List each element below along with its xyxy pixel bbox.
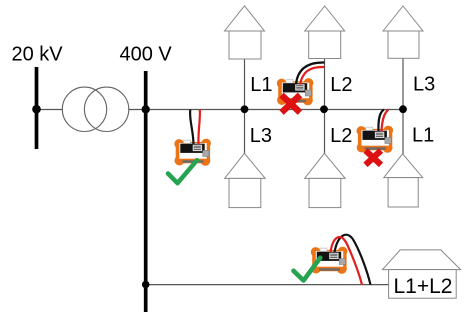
svg-text:400 V: 400 V — [120, 44, 173, 66]
svg-text:L2: L2 — [330, 74, 352, 96]
wire meter M1 red lead — [198, 110, 199, 145]
house E — [305, 153, 346, 207]
svg-text:L1: L1 — [250, 74, 272, 96]
transformer T1 — [62, 87, 128, 131]
wire meter M2 red lead — [300, 67, 325, 85]
cross mark M3 — [366, 151, 382, 165]
house A — [225, 6, 265, 59]
house B — [305, 6, 345, 59]
check mark M1 — [168, 160, 197, 183]
wire feeder bottom — [146, 284, 389, 286]
wire MV to transformer — [37, 109, 64, 111]
node LV bus — [142, 105, 150, 113]
cross mark M2 — [282, 95, 301, 113]
node feeder — [142, 281, 150, 289]
check mark M4 — [294, 258, 321, 281]
node service C — [399, 105, 407, 113]
svg-text:20 kV: 20 kV — [12, 44, 64, 66]
house F — [384, 154, 423, 207]
wire meter M4 red lead — [331, 237, 363, 285]
meter M2 — [277, 78, 314, 105]
svg-text:L1+L2: L1+L2 — [394, 275, 453, 298]
house L1+L2 — [383, 250, 461, 298]
wire service drop house D (L3 bottom) — [244, 110, 246, 154]
wire meter M2 black lead — [296, 62, 325, 84]
MV busbar — [35, 67, 39, 149]
wire meter M3 red lead — [382, 110, 389, 132]
node service B — [320, 105, 328, 113]
wire service drop house A (L1 top) — [244, 59, 246, 110]
house C — [383, 6, 423, 58]
wire service drop house B (L2 top) — [324, 59, 326, 110]
svg-text:L2: L2 — [330, 125, 352, 147]
wire transformer to LV bus (main 400V bus) — [129, 109, 403, 111]
svg-text:L3: L3 — [413, 74, 435, 96]
wire meter M1 black lead — [190, 110, 193, 145]
LV busbar — [144, 71, 148, 312]
wire service drop house E (L2 bottom) — [324, 110, 326, 154]
wire meter M4 black lead — [335, 235, 371, 285]
svg-text:L3: L3 — [250, 125, 272, 147]
meter M1 — [174, 139, 211, 166]
svg-text:L1: L1 — [412, 125, 434, 147]
node MV bus — [32, 105, 41, 114]
house D — [225, 153, 266, 207]
wire service drop house C (L3 top) — [402, 59, 404, 110]
node service A — [241, 105, 249, 113]
wire meter M3 black lead — [378, 110, 384, 132]
wire service drop house F (L1 bottom) — [402, 110, 404, 155]
meter M3 — [357, 126, 394, 153]
meter M4 — [311, 247, 348, 274]
